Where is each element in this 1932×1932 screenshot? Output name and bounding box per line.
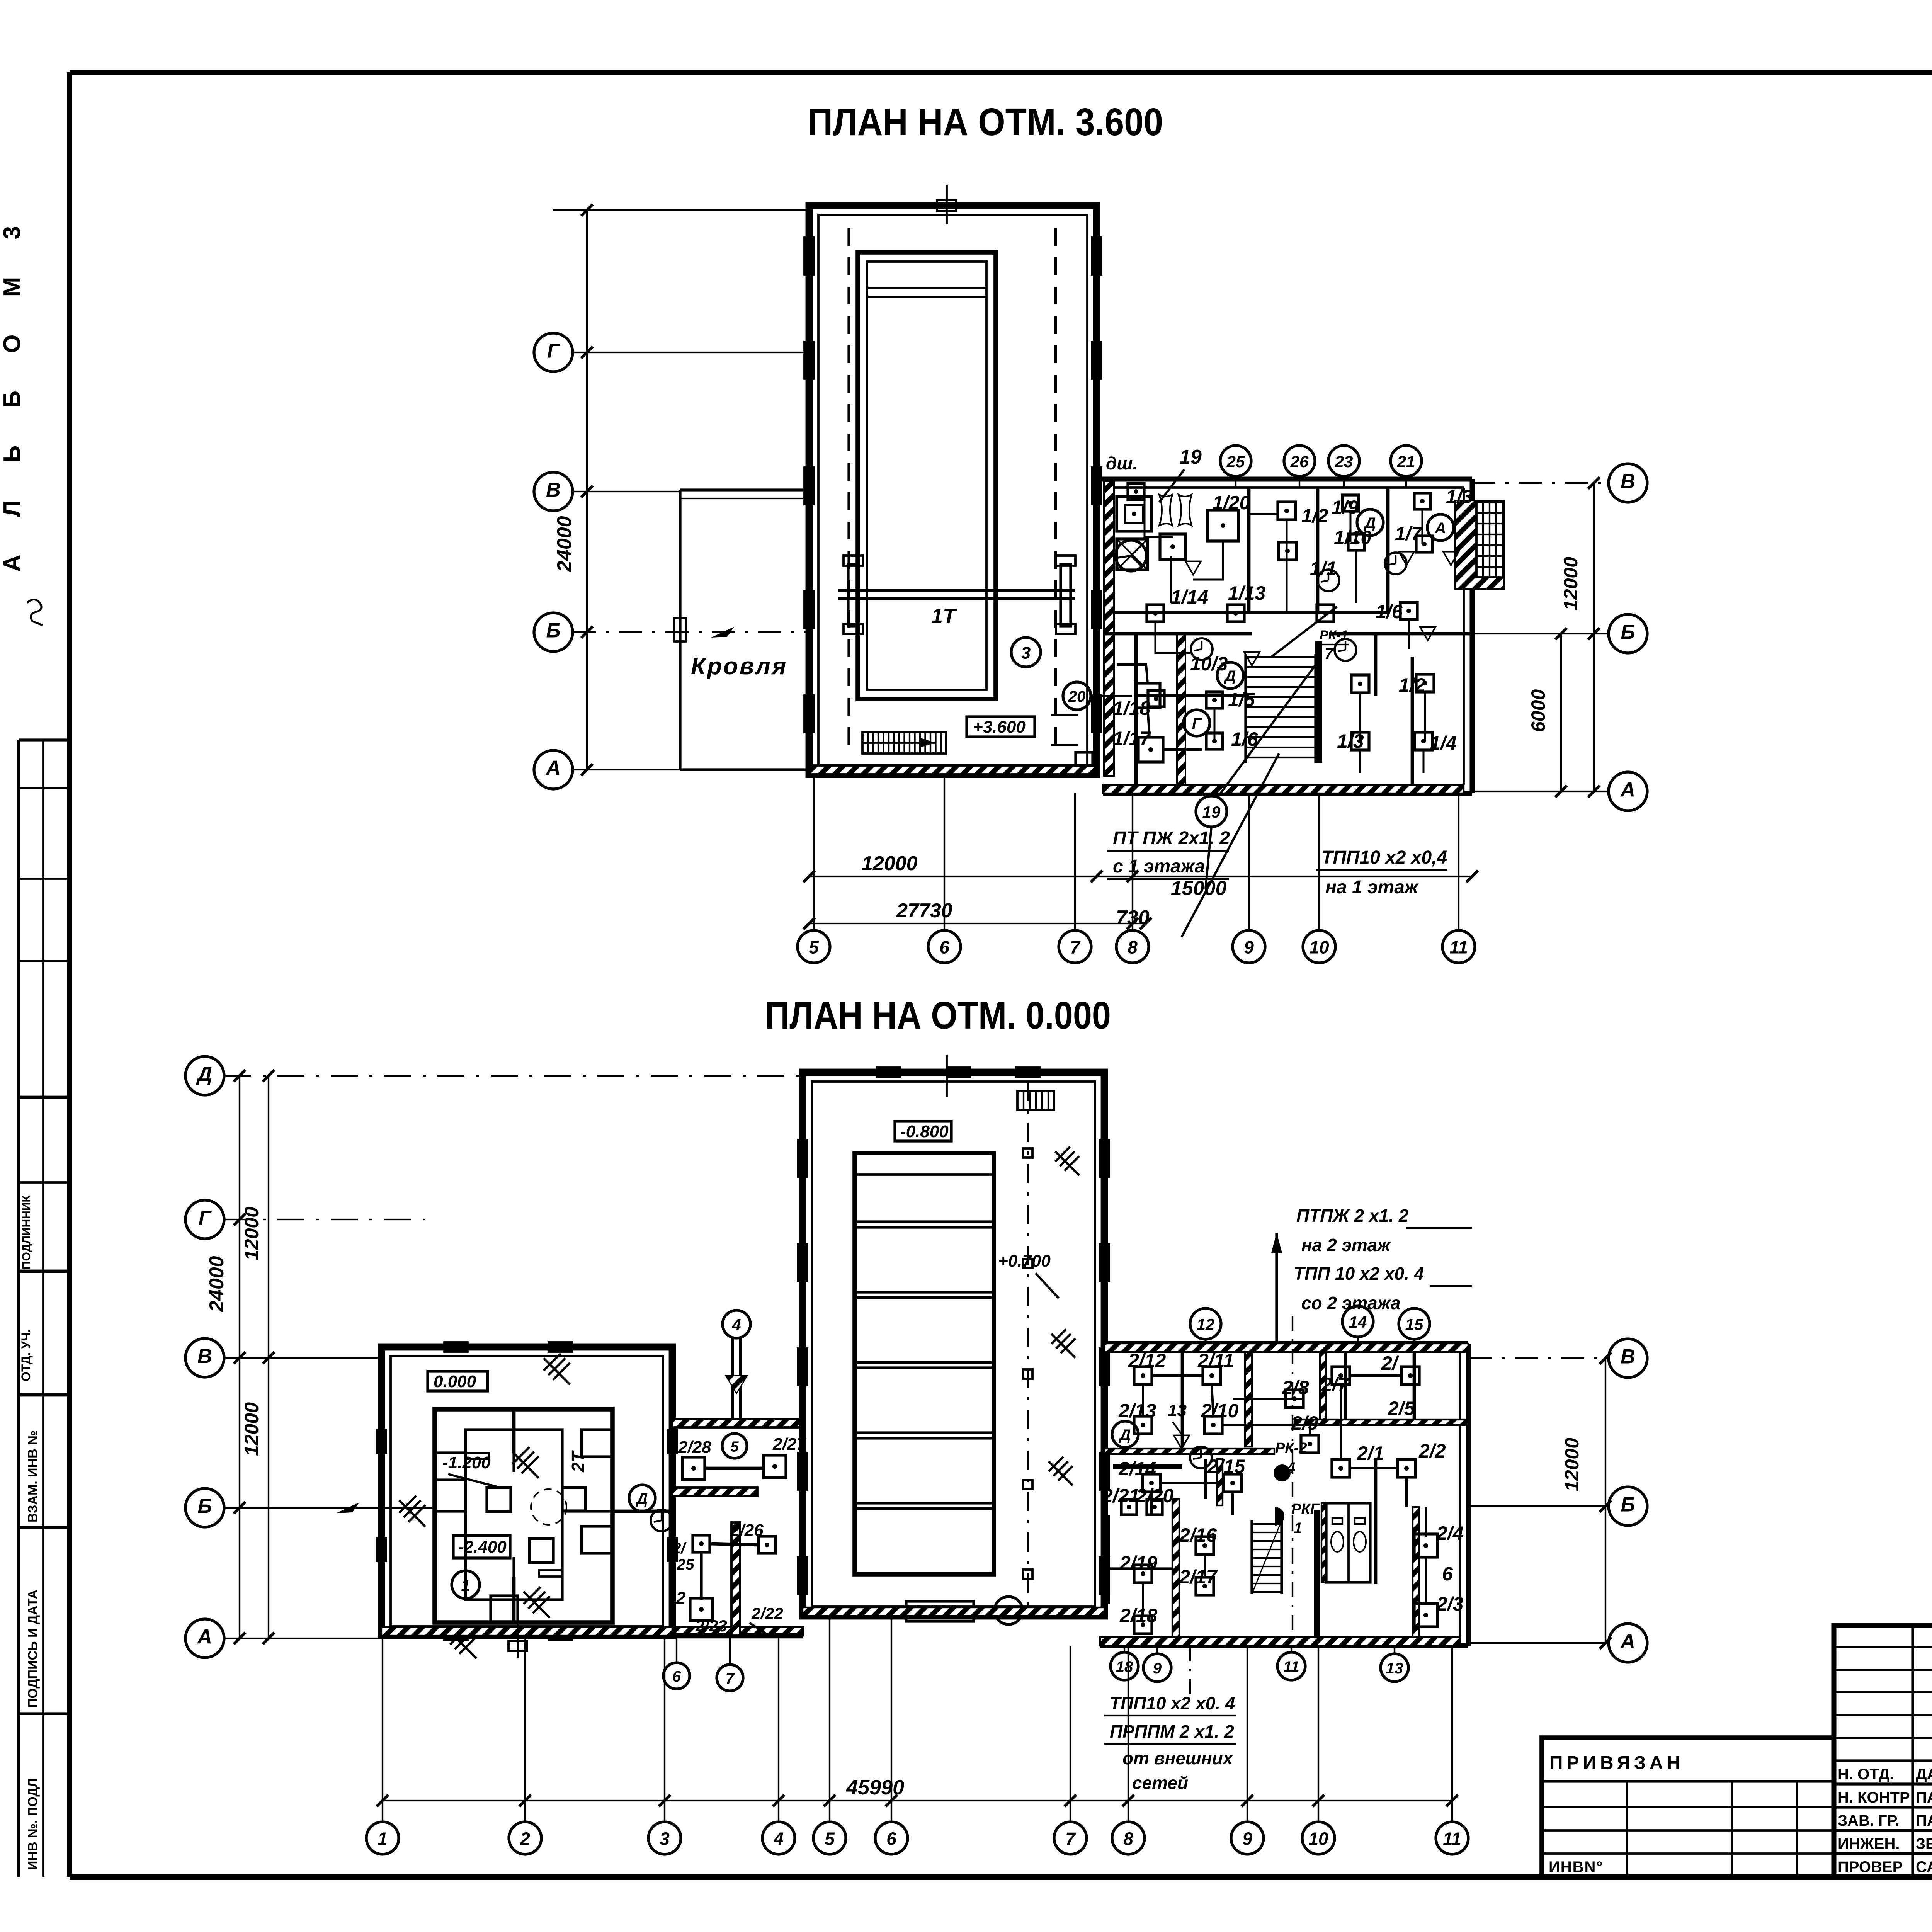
lower plan ladder grid top right [1017, 1091, 1054, 1110]
upper plan valve symbols [1185, 561, 1201, 575]
svg-text:-2.400: -2.400 [458, 1537, 507, 1556]
lower plan bottom axis circles 1-11 [366, 1822, 399, 1854]
svg-text:2/18: 2/18 [1119, 1605, 1158, 1626]
upper plan left axis dimension line 24000 [553, 204, 811, 776]
svg-text:1/1: 1/1 [1310, 558, 1337, 579]
lower plan right wing outer walls [1100, 1344, 1468, 1646]
svg-text:Д: Д [1119, 1427, 1131, 1444]
upper plan staircase 11 [1246, 654, 1316, 763]
upper plan wiring lines [1051, 492, 1425, 745]
svg-text:1/20: 1/20 [1213, 492, 1250, 514]
upper plan bottom axis circles 5-11 [798, 930, 830, 963]
title block left grid columns [1834, 1626, 1932, 1877]
svg-text:10: 10 [1309, 937, 1329, 957]
svg-text:1: 1 [1294, 1520, 1302, 1537]
svg-text:23: 23 [1335, 452, 1353, 471]
upper plan elevation mark +3.600 [967, 717, 1035, 737]
svg-text:А: А [1620, 779, 1635, 801]
svg-text:2: 2 [520, 1828, 530, 1849]
upper plan duct symbols near top left [1117, 495, 1192, 570]
upper plan crane beam [838, 556, 1075, 634]
svg-text:2/4: 2/4 [1436, 1522, 1464, 1544]
lower plan right wing top wall hatch [1104, 1344, 1468, 1352]
upper plan bottom wall hatched [809, 765, 1095, 774]
svg-text:В: В [1621, 1345, 1635, 1368]
svg-text:4: 4 [773, 1828, 784, 1849]
svg-text:1/2: 1/2 [1301, 505, 1328, 527]
svg-text:7: 7 [726, 1670, 735, 1687]
svg-text:+0.700: +0.700 [998, 1252, 1051, 1270]
svg-text:ПАРУСОВА: ПАРУСОВА [1916, 1789, 1932, 1806]
svg-text:ПЛАН НА ОТМ. 0.000: ПЛАН НА ОТМ. 0.000 [765, 994, 1111, 1037]
upper plan signal boxes group [1128, 483, 1434, 762]
upper plan entrance stair hatched [1455, 500, 1504, 589]
svg-text:Б: Б [1621, 1493, 1635, 1516]
svg-text:А Л Ь Б О М 3: А Л Ь Б О М 3 [0, 211, 26, 572]
svg-text:ИНВN°: ИНВN° [1549, 1859, 1603, 1876]
svg-text:4: 4 [731, 1316, 741, 1334]
svg-text:со 2 этажа: со 2 этажа [1301, 1293, 1401, 1313]
svg-text:6: 6 [1442, 1563, 1453, 1585]
svg-text:11: 11 [1443, 1828, 1461, 1849]
svg-text:9: 9 [1242, 1828, 1252, 1849]
svg-text:1/3: 1/3 [1446, 486, 1473, 507]
svg-text:6: 6 [886, 1828, 896, 1849]
svg-text:Н. КОНТР: Н. КОНТР [1838, 1789, 1910, 1806]
svg-text:5: 5 [809, 937, 819, 957]
svg-text:0.000: 0.000 [434, 1372, 476, 1391]
svg-text:-0.800: -0.800 [900, 1122, 949, 1141]
svg-text:24000: 24000 [553, 516, 576, 572]
svg-text:1/17: 1/17 [1113, 728, 1151, 749]
title block outer frame [1834, 1626, 1932, 1877]
upper plan axis circle Г [534, 333, 573, 372]
lower plan axis circle А lower-left [185, 1619, 224, 1658]
svg-text:РК-2: РК-2 [1275, 1440, 1307, 1456]
svg-text:ПТ ПЖ 2х1. 2: ПТ ПЖ 2х1. 2 [1113, 828, 1230, 849]
lower plan right wing wiring [1143, 1376, 1426, 1616]
lower plan right wing bottom wall hatch [1100, 1637, 1460, 1646]
svg-text:1/6: 1/6 [1376, 601, 1403, 622]
lower plan overall dimension 45990 [377, 1776, 1458, 1806]
svg-text:2/17: 2/17 [1179, 1566, 1218, 1588]
lower plan connector boxes 2/28 2/27 [682, 1457, 705, 1480]
upper plan right dimension line 12000 6000 [1527, 477, 1600, 797]
upper plan leader diagonals [1182, 607, 1337, 937]
upper plan circled letters [1357, 509, 1383, 536]
upper plan cable note ТПП10х2х0,4 на 1 этаж [1316, 847, 1447, 898]
svg-text:7: 7 [1065, 1828, 1076, 1849]
svg-text:9: 9 [1153, 1660, 1162, 1677]
lower plan axis 2 bottom tick [517, 1615, 519, 1658]
svg-text:19: 19 [1202, 803, 1221, 821]
svg-text:ПОДЛИННИК: ПОДЛИННИК [20, 1195, 33, 1269]
svg-text:1Т: 1Т [931, 604, 957, 628]
svg-text:2/12: 2/12 [1128, 1350, 1166, 1371]
lower plan elevation 0.000 box lower [906, 1601, 974, 1621]
svg-text:12000: 12000 [1560, 557, 1582, 611]
svg-text:6000: 6000 [1527, 689, 1549, 732]
svg-text:Г: Г [547, 340, 561, 362]
lower plan elevation -0.800 box [895, 1121, 951, 1141]
svg-text:45990: 45990 [846, 1776, 904, 1799]
upper plan fan symbol [1116, 540, 1146, 571]
svg-text:ПАРУСОВА: ПАРУСОВА [1916, 1812, 1932, 1829]
upper plan circled 19 below [1196, 796, 1227, 827]
svg-text:2: 2 [676, 1588, 686, 1607]
svg-text:-1.200: -1.200 [442, 1453, 491, 1472]
lower plan pump building pilasters [377, 1342, 677, 1640]
svg-text:дш.: дш. [1106, 453, 1138, 473]
svg-text:2/16: 2/16 [1179, 1524, 1218, 1546]
svg-text:2/2: 2/2 [1418, 1440, 1446, 1462]
svg-text:ИНЖЕН.: ИНЖЕН. [1838, 1835, 1900, 1852]
svg-text:1/7: 1/7 [1395, 523, 1423, 544]
svg-text:Кровля: Кровля [691, 653, 787, 680]
lower plan filter hall crosshatch marks [1055, 1147, 1070, 1162]
upper plan room number 3 [1011, 638, 1041, 667]
svg-text:14: 14 [1349, 1313, 1367, 1331]
svg-text:8: 8 [1123, 1828, 1133, 1849]
svg-text:2/20: 2/20 [1136, 1485, 1174, 1507]
lower plan connector bottom wall hatch [672, 1627, 803, 1636]
svg-text:А: А [197, 1626, 212, 1648]
svg-text:1/5: 1/5 [1228, 689, 1255, 711]
lower plan filter hall pilasters [798, 1055, 1109, 1594]
upper plan filter tank 1T [858, 252, 996, 699]
lower plan filter tank cells [855, 1153, 994, 1574]
lower plan connector corridor walls [612, 1419, 803, 1636]
svg-text:15000: 15000 [1171, 877, 1227, 900]
svg-text:1/10: 1/10 [1334, 527, 1372, 548]
svg-text:25: 25 [1226, 452, 1245, 471]
svg-text:от внешних: от внешних [1122, 1748, 1234, 1768]
svg-text:ПОДПИСЬ И ДАТА: ПОДПИСЬ И ДАТА [26, 1590, 40, 1708]
lower plan dashed circle pump [531, 1489, 566, 1525]
svg-text:на 2 этаж: на 2 этаж [1301, 1235, 1391, 1255]
svg-text:с 1 этажа: с 1 этажа [1113, 856, 1205, 877]
lower plan elevation -2.400 box [453, 1536, 510, 1558]
svg-text:1: 1 [378, 1828, 388, 1849]
svg-text:ПРИВЯЗАН: ПРИВЯЗАН [1549, 1753, 1684, 1773]
lower plan pump building outer walls [381, 1347, 672, 1636]
svg-text:Н. ОТД.: Н. ОТД. [1838, 1766, 1894, 1783]
svg-text:2/9: 2/9 [1291, 1412, 1318, 1434]
lower plan toilet cubicles [1321, 1503, 1370, 1582]
lower plan pump house pedestal details [435, 1453, 612, 1577]
svg-text:7: 7 [1070, 937, 1081, 957]
svg-text:А: А [1620, 1630, 1635, 1653]
lower plan circled Д right wing [1112, 1421, 1138, 1447]
upper plan right wing outer walls [1097, 479, 1472, 793]
upper plan roof area Кровля [674, 490, 809, 770]
svg-text:10/3: 10/3 [1190, 653, 1228, 675]
svg-text:2/: 2/ [672, 1540, 687, 1557]
svg-text:ТПП 10 х2 х0. 4: ТПП 10 х2 х0. 4 [1294, 1264, 1424, 1284]
svg-text:1/2: 1/2 [1399, 674, 1426, 696]
lower plan axis circle Б lower-left [185, 1488, 224, 1527]
lower plan elevation 0.000 box [428, 1371, 488, 1391]
svg-text:2/5: 2/5 [1388, 1398, 1415, 1419]
upper plan bottom axis leader lines [814, 774, 1459, 930]
svg-text:13: 13 [1168, 1401, 1187, 1420]
svg-text:1: 1 [461, 1576, 470, 1594]
svg-text:2/14: 2/14 [1118, 1458, 1156, 1480]
svg-text:11: 11 [1283, 1658, 1299, 1675]
lower plan right dimension 12000 [1561, 1352, 1611, 1649]
upper plan filter hall building outer walls [809, 206, 1097, 774]
svg-text:2/3: 2/3 [1436, 1593, 1464, 1615]
lower plan axis circle В lower-left [185, 1338, 224, 1377]
lower plan axis circle Г lower [185, 1200, 224, 1239]
svg-text:В: В [197, 1345, 212, 1368]
svg-text:5: 5 [825, 1828, 835, 1849]
svg-text:ПЛАН НА ОТМ. 3.600: ПЛАН НА ОТМ. 3.600 [808, 100, 1163, 144]
upper plan clock symbols [1318, 570, 1339, 591]
svg-text:В: В [546, 479, 561, 502]
svg-text:12000: 12000 [241, 1207, 262, 1260]
lower plan right wing signal boxes [1121, 1367, 1437, 1634]
svg-text:Г: Г [1192, 715, 1202, 732]
svg-text:2/11: 2/11 [1197, 1350, 1234, 1371]
lower plan connector room 5 [722, 1434, 747, 1458]
svg-text:на 1 этаж: на 1 этаж [1325, 877, 1419, 898]
svg-text:18: 18 [1116, 1658, 1133, 1675]
left margin handwritten mark [27, 599, 43, 625]
svg-text:2Т: 2Т [568, 1450, 588, 1473]
lower plan right axis circles В Б А [1609, 1339, 1647, 1378]
svg-text:В: В [1621, 470, 1635, 493]
upper plan building wall pilasters [804, 185, 1101, 732]
svg-text:А: А [545, 757, 561, 780]
svg-text:13: 13 [1386, 1660, 1403, 1677]
lower plan cable notes от внешних сетей [1104, 1646, 1236, 1793]
svg-text:Д: Д [636, 1490, 648, 1507]
svg-text:2/21: 2/21 [1102, 1485, 1139, 1507]
upper plan axis circle А left [534, 750, 573, 789]
lower plan filter hall bottom wall hatch [803, 1607, 1104, 1616]
upper plan right wing bottom wall hatch [1103, 785, 1464, 793]
svg-text:12: 12 [1197, 1315, 1215, 1333]
lower plan cable notes ПТПЖ на 2 этаж [1271, 1206, 1472, 1646]
svg-text:1/9: 1/9 [1332, 497, 1359, 518]
svg-text:2/19: 2/19 [1119, 1552, 1158, 1574]
svg-text:2/1: 2/1 [1357, 1442, 1384, 1464]
lower plan connector circled Д and clock [629, 1485, 655, 1511]
svg-text:3: 3 [660, 1828, 670, 1849]
svg-text:ЗЕЛЕНИНА: ЗЕЛЕНИНА [1916, 1835, 1932, 1852]
upper plan right wing partitions [1103, 488, 1472, 785]
upper plan crane rail dashed axis left [847, 228, 850, 753]
svg-text:Б: Б [1621, 621, 1635, 644]
svg-text:2/28: 2/28 [678, 1438, 711, 1457]
svg-text:11: 11 [1449, 937, 1468, 957]
svg-text:12000: 12000 [241, 1402, 262, 1456]
lower plan axis circle Д [185, 1056, 224, 1095]
upper plan room number 20 [1063, 682, 1091, 710]
svg-text:26: 26 [1290, 452, 1309, 471]
svg-text:Г: Г [199, 1207, 212, 1230]
upper plan crane rail dashed axis right [1054, 228, 1057, 753]
svg-text:+3.600: +3.600 [973, 718, 1026, 736]
svg-text:ВЗАМ. ИНВ №: ВЗАМ. ИНВ № [26, 1430, 40, 1522]
lower plan right wing partitions [1104, 1352, 1468, 1637]
left margin stamp column grid [19, 740, 70, 1877]
lower plan connector bottom circles 6 7 [663, 1663, 690, 1689]
svg-text:РКГ: РКГ [1291, 1501, 1320, 1517]
lower plan left axis dimension lines 24000 12000 12000 [206, 1070, 274, 1644]
svg-text:3: 3 [1021, 644, 1031, 663]
upper plan right axis circles В Б А [1609, 464, 1647, 502]
lower plan room number 1 [452, 1571, 480, 1599]
svg-text:2/22: 2/22 [751, 1604, 783, 1622]
upper plan bottom dimension lines [803, 852, 1478, 929]
svg-text:2/10: 2/10 [1201, 1400, 1239, 1422]
upper plan right wing thick wall segments [1104, 481, 1114, 776]
svg-text:ЗАВ. ГР.: ЗАВ. ГР. [1838, 1812, 1900, 1829]
svg-text:Б: Б [546, 619, 560, 642]
lower plan pump house inner tank walls [435, 1409, 612, 1622]
svg-text:12000: 12000 [1561, 1438, 1583, 1492]
svg-text:Д: Д [196, 1063, 212, 1086]
lower plan right wing thick wall and stair [1252, 1510, 1320, 1638]
lower plan filter hall column squares [1023, 1148, 1032, 1158]
lower plan bottom room circles 18 9 11 13 [1111, 1652, 1138, 1680]
svg-text:2/26: 2/26 [730, 1521, 764, 1540]
upper plan axis circle Б left [534, 613, 573, 651]
svg-text:ДАНИЛОВ: ДАНИЛОВ [1916, 1766, 1932, 1783]
svg-text:25: 25 [677, 1556, 694, 1573]
svg-text:15: 15 [1405, 1315, 1423, 1333]
svg-text:6: 6 [939, 937, 949, 957]
upper plan extra wires [1155, 514, 1423, 773]
svg-text:А: А [1435, 520, 1446, 537]
svg-text:Б: Б [197, 1495, 212, 1518]
lower plan pump building bottom wall hatch [381, 1627, 672, 1636]
svg-text:ТПП10 х2 х0,4: ТПП10 х2 х0,4 [1321, 847, 1447, 868]
lower plan filter hall column line dashed [1027, 1082, 1029, 1605]
upper plan staircase bottom [862, 732, 946, 753]
lower plan bottom axis leader lines [383, 1616, 1452, 1822]
svg-text:2/8: 2/8 [1282, 1377, 1309, 1398]
lower plan room number 2 [995, 1597, 1022, 1624]
svg-text:9: 9 [1244, 937, 1254, 957]
svg-text:2/7: 2/7 [1321, 1374, 1349, 1395]
svg-text:1/4: 1/4 [1430, 732, 1457, 754]
attachment block ПРИВЯЗАН grid [1542, 1738, 1834, 1877]
lower plan heavy cable bus [1113, 1464, 1182, 1469]
svg-text:24000: 24000 [206, 1256, 228, 1312]
svg-text:1/13: 1/13 [1228, 582, 1266, 604]
svg-text:20: 20 [1068, 688, 1086, 705]
svg-text:ИНВ №. ПОДЛ: ИНВ №. ПОДЛ [26, 1778, 40, 1870]
svg-text:ПРОВЕР: ПРОВЕР [1838, 1859, 1903, 1876]
svg-text:ПТПЖ 2 х1. 2: ПТПЖ 2 х1. 2 [1296, 1206, 1409, 1226]
upper plan top axis circles 25 26 23 21 [1220, 446, 1251, 476]
upper plan axis circle В left [534, 472, 573, 511]
lower plan connector box 2/23 [690, 1598, 713, 1621]
svg-text:2/13: 2/13 [1118, 1400, 1156, 1422]
lower plan vent duct axis 4 [723, 1310, 750, 1419]
svg-text:8: 8 [1128, 937, 1138, 957]
svg-text:1/18: 1/18 [1113, 697, 1151, 719]
upper plan wires 1/18 1/17 [1117, 665, 1202, 750]
svg-text:РК-1: РК-1 [1320, 628, 1348, 643]
lower plan filter hall outer walls [803, 1072, 1104, 1616]
svg-text:19: 19 [1179, 446, 1202, 468]
svg-text:5: 5 [730, 1439, 739, 1455]
lower plan top circles 12 14 15 [1190, 1308, 1221, 1339]
svg-text:сетей: сетей [1132, 1773, 1188, 1793]
svg-text:2/23: 2/23 [695, 1617, 727, 1635]
svg-text:12000: 12000 [862, 852, 918, 875]
svg-text:2/: 2/ [1381, 1352, 1400, 1374]
svg-text:10: 10 [1308, 1828, 1328, 1849]
svg-text:САРЬЯН: САРЬЯН [1916, 1859, 1932, 1876]
svg-text:7: 7 [1325, 645, 1334, 662]
svg-text:ОТД. УЧ.: ОТД. УЧ. [19, 1329, 33, 1382]
svg-text:6: 6 [672, 1668, 681, 1685]
lower plan pump house crosshatch marks [399, 1496, 416, 1513]
upper plan cable note ПТ ПЖ 2х1.2 с 1 этажа [1107, 828, 1230, 879]
lower plan connector boxes 2/25 2/26 [693, 1535, 710, 1552]
svg-text:1/14: 1/14 [1171, 586, 1208, 608]
svg-text:2/15: 2/15 [1207, 1456, 1246, 1477]
svg-text:21: 21 [1397, 452, 1415, 471]
